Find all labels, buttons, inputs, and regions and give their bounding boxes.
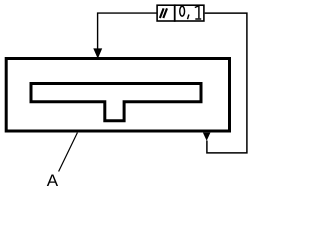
feature control frame box: [157, 5, 204, 21]
parallelism symbol: [160, 8, 167, 18]
tolerance value 0,1: [180, 6, 201, 19]
T-slot inner contour: [31, 84, 201, 121]
part outline rectangle: [6, 59, 229, 132]
datum leader A: [59, 133, 78, 172]
arrowhead at top surface: [93, 48, 102, 58]
svg-text:A: A: [47, 171, 59, 190]
frame divider: [174, 4, 176, 21]
arrowhead at bottom surface: [203, 133, 211, 141]
leader left: frame to top surface: [98, 13, 158, 49]
leader right: frame around to bottom surface: [205, 13, 247, 153]
